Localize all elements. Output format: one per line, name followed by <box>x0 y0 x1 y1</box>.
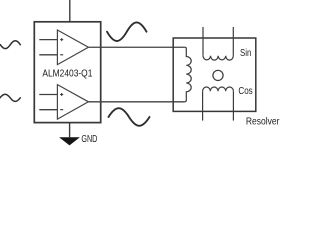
svg-text:Sin: Sin <box>240 47 251 59</box>
cos winding coil <box>203 87 234 91</box>
op-amp A1 output wire to resolver excitation <box>88 46 184 48</box>
resolver excitation winding (rotor coil) <box>185 47 191 102</box>
ALM2403-Q1 device box U1 <box>34 22 100 123</box>
op-amp A1 inverting input wire <box>39 54 57 56</box>
svg-text:ALM2403-Q1: ALM2403-Q1 <box>42 68 92 79</box>
sin winding coil <box>203 56 233 60</box>
cos winding terminal stub left <box>202 91 204 120</box>
op-amp A2 output wire to resolver excitation return <box>88 101 184 103</box>
ground wire <box>69 123 71 138</box>
sin winding terminal stub left <box>202 27 204 56</box>
input sine wave 1 <box>0 41 20 49</box>
op-amp A1 <box>57 30 88 65</box>
op-amp A2 non-inverting input wire <box>39 94 57 96</box>
svg-text:GND: GND <box>81 134 97 145</box>
power supply line <box>69 0 71 22</box>
cos winding terminal stub right <box>232 91 234 120</box>
op-amp A2 <box>57 85 88 120</box>
ground <box>59 137 80 145</box>
svg-text:Resolver: Resolver <box>246 117 280 128</box>
op-amp A2 inverting input wire <box>39 109 57 111</box>
op-amp A1 non-inverting input wire <box>39 39 57 41</box>
output sine wave top <box>107 22 147 41</box>
output sine wave bottom <box>109 108 150 126</box>
input sine wave 2 <box>0 94 20 101</box>
svg-text:Cos: Cos <box>238 85 252 97</box>
rotor shaft circle <box>213 70 223 80</box>
sin winding terminal stub right <box>232 27 234 56</box>
resolver body box <box>173 38 256 111</box>
